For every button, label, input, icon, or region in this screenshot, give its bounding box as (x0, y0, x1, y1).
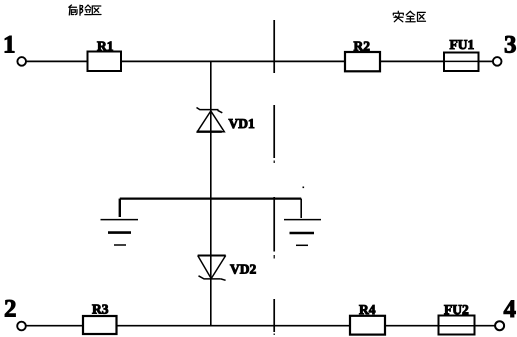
fuse FU2 (439, 316, 475, 335)
label: safe area 安全区 (393, 11, 425, 22)
resistor R1 (88, 52, 122, 72)
wire: terminal 1 to R1 (26, 60, 87, 62)
svg-text:VD2: VD2 (230, 262, 256, 277)
svg-text:2: 2 (4, 296, 17, 323)
svg-text:VD1: VD1 (229, 116, 255, 131)
label: hazardous area 危险区 (69, 5, 101, 15)
speckle dot (303, 187, 305, 189)
zener diode VD2 (198, 256, 226, 281)
svg-text:4: 4 (504, 296, 517, 323)
wire: terminal 2 to R3 (26, 325, 83, 327)
terminal 1 (17, 57, 26, 66)
wire: FU1 to terminal 3 (479, 60, 493, 62)
svg-text:FU1: FU1 (450, 37, 475, 52)
fuse FU1 (444, 53, 479, 72)
terminal 2 (17, 322, 26, 331)
ground (left) (101, 199, 139, 245)
wire: center vertical (node between R1,R2 down to bottom wire) (210, 61, 212, 325)
ground (right) (284, 199, 321, 246)
terminal 4 (495, 321, 504, 330)
wire: FU2 to terminal 4 (475, 325, 495, 327)
svg-text:R3: R3 (92, 302, 109, 317)
svg-text:R4: R4 (359, 302, 376, 317)
wire: ground bus (120, 198, 301, 200)
resistor R3 (83, 316, 117, 334)
terminal 3 (493, 57, 502, 66)
svg-text:R2: R2 (354, 39, 371, 54)
resistor R2 (345, 52, 380, 71)
wire: R2 to FU1 (380, 60, 444, 62)
svg-text:FU2: FU2 (444, 302, 469, 317)
wire: R1 to R2 (crosses barrier) (121, 60, 345, 62)
zener diode VD1 (197, 108, 225, 132)
svg-text:1: 1 (3, 32, 16, 59)
wire: R4 to FU2 (385, 325, 439, 327)
resistor R4 (350, 316, 385, 335)
wire: R3 to R4 (crosses barrier) (117, 325, 351, 327)
barrier dashed line (273, 20, 275, 335)
svg-text:R1: R1 (97, 38, 114, 53)
svg-text:3: 3 (504, 32, 517, 59)
